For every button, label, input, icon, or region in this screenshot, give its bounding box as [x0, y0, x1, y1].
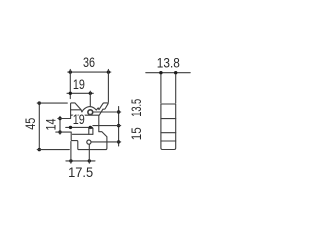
dim 13.8 dots	[159, 71, 177, 74]
svg-text:14: 14	[43, 118, 59, 130]
dim 13.8 line	[146, 72, 190, 74]
svg-text:13.5: 13.5	[128, 99, 144, 117]
svg-text:17.5: 17.5	[68, 164, 93, 180]
dim 14 dots	[58, 117, 61, 134]
dim 36 extension left	[69, 69, 71, 98]
svg-text:45: 45	[22, 118, 38, 130]
dim 45 line	[38, 103, 40, 150]
right dim extension mid level	[93, 125, 121, 127]
dim 36 extension right	[107, 69, 109, 102]
dim 19 lower dots	[69, 126, 92, 129]
dim 19 lower line	[66, 126, 93, 128]
dim 13.8 extension left	[160, 75, 162, 103]
dim 17.5 extension left	[70, 142, 72, 164]
dim 14 extension top	[58, 118, 71, 120]
part left wall top edge under ear	[71, 109, 81, 111]
dim 36 dots	[69, 70, 111, 73]
dim 45 extension bottom	[37, 149, 69, 151]
svg-text:15: 15	[128, 127, 144, 140]
svg-text:19: 19	[73, 111, 85, 127]
part screw slot right wall	[92, 128, 94, 134]
dim 36 line	[68, 71, 111, 73]
dim 14 extension bottom	[56, 131, 71, 133]
top hole ring	[88, 110, 93, 115]
dim 17.5 dots	[69, 159, 91, 162]
bottom hole ring	[87, 140, 91, 144]
right dim extension hole level	[94, 111, 121, 113]
dim 14 line	[59, 116, 61, 134]
right dim dots	[117, 110, 120, 143]
side view divider 3	[161, 140, 176, 142]
right dim line 13.5/15	[118, 107, 120, 147]
part channel floor line	[72, 133, 93, 135]
svg-text:36: 36	[83, 54, 95, 70]
dim 17.5 extension right	[88, 145, 90, 164]
dim 19 upper line	[67, 92, 93, 94]
dim 45 dots	[38, 101, 41, 151]
part channel ceiling line	[71, 114, 99, 116]
svg-text:19: 19	[73, 76, 85, 92]
part screw slot top	[89, 127, 93, 129]
dim 13.8 extension right	[175, 75, 177, 103]
dim 19 upper extension to hole	[89, 91, 91, 106]
right dim extension bottom level	[91, 141, 121, 143]
dim 17.5 line	[66, 160, 95, 162]
side view divider 2	[161, 132, 176, 134]
part screw slot left wall	[88, 128, 90, 134]
svg-text:13.8: 13.8	[157, 55, 180, 71]
side view divider 1	[161, 118, 176, 120]
dim 19 upper dots	[69, 92, 92, 95]
part outline front view	[71, 103, 109, 150]
dim 45 extension top	[37, 102, 67, 104]
side view rectangle	[161, 104, 176, 150]
